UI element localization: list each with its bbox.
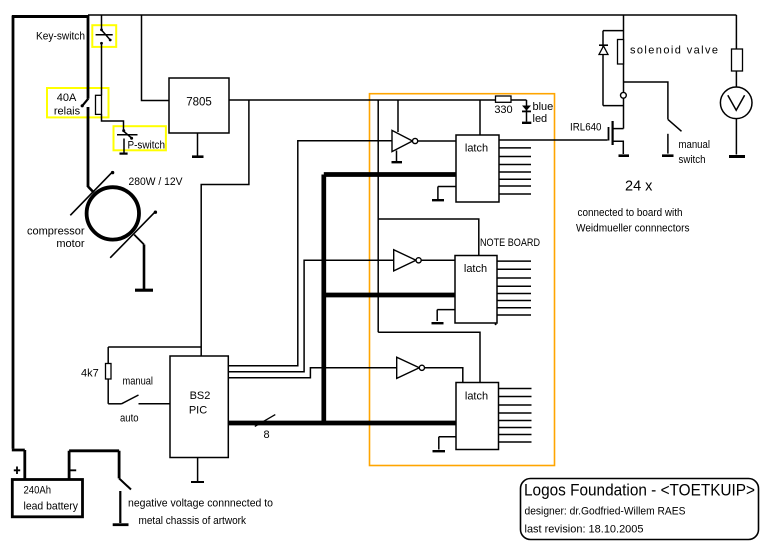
svg-text:negative voltage connnected to: negative voltage connnected to: [128, 498, 273, 510]
svg-text:280W / 12V: 280W / 12V: [129, 176, 184, 188]
svg-text:8: 8: [264, 429, 270, 441]
svg-text:last revision: 18.10.2005: last revision: 18.10.2005: [525, 524, 644, 536]
svg-text:latch: latch: [465, 391, 488, 403]
svg-text:relais: relais: [54, 106, 81, 118]
svg-text:40A: 40A: [57, 92, 77, 104]
svg-text:blue: blue: [533, 101, 554, 113]
svg-text:PIC: PIC: [189, 405, 207, 417]
svg-text:switch: switch: [679, 154, 706, 166]
svg-text:240Ah: 240Ah: [24, 485, 52, 497]
svg-text:manual: manual: [123, 376, 154, 388]
svg-text:led: led: [533, 113, 548, 125]
svg-text:Key-switch: Key-switch: [36, 31, 85, 43]
svg-text:24 x: 24 x: [625, 179, 653, 195]
svg-text:auto: auto: [120, 413, 139, 425]
svg-text:lead battery: lead battery: [24, 501, 79, 513]
svg-text:P-switch: P-switch: [128, 140, 166, 152]
svg-text:metal chassis of artwork: metal chassis of artwork: [139, 515, 247, 527]
svg-text:manual: manual: [679, 139, 711, 151]
svg-text:designer: dr.Godfried-Willem R: designer: dr.Godfried-Willem RAES: [525, 506, 686, 518]
svg-text:connected to board with: connected to board with: [578, 207, 683, 219]
svg-text:latch: latch: [464, 263, 487, 275]
svg-text:latch: latch: [465, 143, 488, 155]
svg-text:motor: motor: [56, 238, 84, 250]
svg-text:NOTE BOARD: NOTE BOARD: [480, 237, 540, 249]
svg-text:IRL640: IRL640: [570, 122, 602, 134]
svg-text:4k7: 4k7: [81, 368, 99, 380]
svg-text:compressor: compressor: [27, 226, 85, 238]
svg-text:7805: 7805: [186, 97, 212, 109]
svg-text:Weidmueller connnectors: Weidmueller connnectors: [576, 223, 690, 235]
svg-text:Logos Foundation - <TOETKUIP>: Logos Foundation - <TOETKUIP>: [524, 481, 755, 500]
svg-text:BS2: BS2: [190, 390, 211, 402]
svg-text:330: 330: [494, 104, 512, 116]
